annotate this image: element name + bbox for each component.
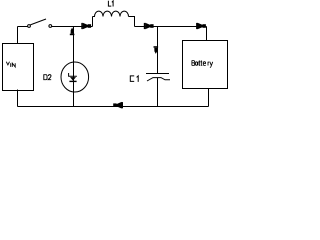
switch S1 left contact [28,25,31,28]
switch S1 right contact [49,25,52,28]
wire switch to riser [52,26,93,28]
wire top rail left [18,26,28,28]
diode D2 cathode bar [69,81,76,82]
label L1 [108,1,113,7]
capacitor C1 top plate [146,73,169,75]
wire top rail right [135,26,207,28]
label VIN [6,62,15,67]
wire VIN top lead [17,27,19,44]
label C1 [130,76,138,82]
diode D2 anode hook [69,73,77,76]
wire battery bottom lead [208,89,210,107]
diode D2 triangle [70,77,76,81]
wire C1 top lead [157,27,159,74]
wire D2 branch [73,27,75,107]
wire inductor riser left [92,17,94,27]
current return arrow bottom rail [113,102,123,109]
current arrow up into node A (D2 branch) [70,27,75,35]
wire inductor lead right [129,17,135,27]
wire VIN bottom lead [17,90,19,107]
label Battery [192,60,213,67]
capacitor C1 curved plate [147,78,170,81]
current arrow into node A [81,23,91,30]
current arrow after inductor [144,23,154,30]
label D2 [44,75,51,80]
current arrow into battery [196,23,206,30]
switch S1 arm [30,19,46,25]
current arrow down into C1 [154,46,159,54]
battery box [183,41,228,89]
wire battery top lead [206,27,208,41]
VIN source box [3,44,34,91]
diode D2 package circle [61,62,89,92]
wire C1 bottom lead [157,78,159,107]
wire bottom rail [18,106,209,108]
inductor L1 coils [93,11,129,16]
